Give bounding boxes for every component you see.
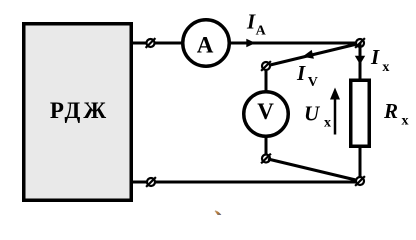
- svg-text:x: x: [402, 114, 409, 129]
- label R_x: [383, 99, 409, 129]
- resistor R_x: [351, 80, 370, 146]
- svg-text:I: I: [370, 45, 380, 69]
- svg-text:x: x: [324, 116, 331, 131]
- wire vertical: node to resistor: [359, 43, 362, 79]
- wire top: box to ammeter: [133, 42, 182, 45]
- arrow I_A: [246, 39, 255, 48]
- svg-text:I: I: [246, 9, 256, 33]
- arrow U_x (voltage arrow): [330, 88, 340, 135]
- svg-text:R: R: [383, 99, 398, 123]
- device box РДЖ: [24, 24, 132, 201]
- wire diagonal: voltmeter bottom terminal to bottom node: [268, 159, 360, 181]
- label I_A: [246, 9, 267, 38]
- arrow I_x: [355, 56, 365, 65]
- label U_x: [304, 102, 331, 131]
- svg-text:I: I: [296, 61, 306, 85]
- terminal voltmeter top: [261, 61, 271, 71]
- ammeter A: [183, 20, 230, 67]
- wire diagonal: node to voltmeter top terminal: [266, 44, 357, 66]
- svg-text:V: V: [308, 75, 318, 90]
- svg-text:V: V: [257, 99, 274, 124]
- svg-text:РДЖ: РДЖ: [50, 98, 109, 123]
- wire: voltmeter to bottom terminal: [265, 136, 268, 158]
- svg-text:x: x: [382, 60, 389, 75]
- label I_V: [296, 61, 318, 90]
- wire: voltmeter top terminal to voltmeter: [265, 70, 268, 92]
- terminal bottom-left: [146, 177, 156, 187]
- svg-text:U: U: [304, 102, 321, 126]
- node: terminal bottom-right: [355, 176, 365, 186]
- label I_x: [370, 45, 389, 75]
- wire bottom: box to bottom node: [133, 181, 360, 184]
- node: terminal top-right: [355, 38, 365, 48]
- terminal voltmeter bottom: [261, 154, 271, 164]
- wire: resistor to bottom node: [359, 146, 362, 181]
- caption а) fragment (cropped at bottom edge): [215, 210, 222, 215]
- arrow I_V: [302, 50, 314, 59]
- wire top: ammeter to node: [230, 42, 360, 45]
- svg-text:A: A: [197, 33, 214, 58]
- voltmeter V: [244, 92, 289, 137]
- terminal top-left: [146, 38, 156, 48]
- svg-text:A: A: [256, 23, 267, 38]
